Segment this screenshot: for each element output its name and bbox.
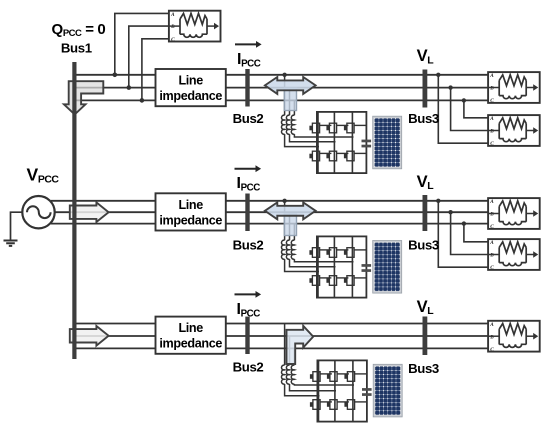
wire inverter phase C lead xyxy=(293,224,295,241)
Bus1 bar xyxy=(72,62,76,359)
wire line A to load2 pin C xyxy=(438,75,488,143)
wire feeder1 phase C Bus1 to load xyxy=(74,99,488,101)
wire line C to load2 pin A xyxy=(464,224,488,242)
load box feeder1 lower xyxy=(488,115,540,147)
junction dot line B xyxy=(448,210,452,214)
junction dot line C xyxy=(462,221,466,225)
svg-text:Bus2: Bus2 xyxy=(233,238,264,253)
svg-text:Bus3: Bus3 xyxy=(408,238,439,253)
ac source V_PCC xyxy=(22,196,54,228)
wire inductor to inverter leg xyxy=(290,259,336,267)
wire inverter phase B lead xyxy=(289,212,291,240)
filter inductor L1 xyxy=(281,240,284,259)
svg-text:Line: Line xyxy=(178,321,203,335)
current label I_PCC feeder3 xyxy=(235,291,262,319)
junction dot line C xyxy=(462,98,466,102)
wire Bus1 to utility box phase B xyxy=(129,26,169,88)
wire inverter phase A lead xyxy=(284,324,286,366)
wire feeder3 phase A Bus1 to load xyxy=(74,323,488,325)
wire Bus1 to utility box phase A xyxy=(115,13,169,74)
wire feeder2 phase C source to load xyxy=(51,223,488,225)
svg-text:Line: Line xyxy=(178,198,203,212)
Bus3 bar feeder2 xyxy=(422,195,427,231)
svg-text:Line: Line xyxy=(178,74,203,88)
wire line A to load2 pin C xyxy=(438,201,488,267)
load box feeder2 lower xyxy=(488,239,540,271)
dc-link capacitor feeder3 xyxy=(362,388,372,391)
Bus3 bar feeder3 xyxy=(422,317,427,356)
elbow arrow feeder3 inverter injection xyxy=(287,326,314,364)
Bus2 bar feeder1 xyxy=(245,69,249,107)
wire inductor to inverter leg xyxy=(285,134,319,147)
junction dot line B xyxy=(448,85,452,89)
bidirectional power arrow at Bus2 xyxy=(265,77,316,94)
filter inductor L2 xyxy=(286,365,289,384)
dc-link capacitor feeder2 xyxy=(362,264,372,267)
wire line C to load2 pin A xyxy=(464,100,488,117)
filter inductor L2 xyxy=(286,115,289,134)
svg-text:Bus3: Bus3 xyxy=(408,111,439,126)
wire inverter phase B lead xyxy=(289,88,291,116)
filter inductor L1 xyxy=(281,365,284,384)
current label I_PCC feeder1 xyxy=(235,41,262,69)
wire inductor to inverter leg xyxy=(285,259,319,271)
junction dot line A xyxy=(436,73,440,77)
bidirectional power arrow at Bus2 xyxy=(265,202,316,219)
wire inverter phase C lead xyxy=(293,348,295,365)
power flow right arrow feeder3 xyxy=(70,326,109,346)
wire inverter phase B lead xyxy=(289,336,291,365)
wire source to ground xyxy=(11,212,23,240)
wire Bus1 to utility box phase C xyxy=(142,39,169,101)
wire inductor to inverter leg xyxy=(294,259,353,262)
filter inductor L3 xyxy=(291,115,294,134)
utility equivalent load box (top) xyxy=(169,11,221,43)
sine symbol xyxy=(27,206,51,218)
svg-text:Bus2: Bus2 xyxy=(233,359,264,374)
wire feeder3 phase B Bus1 to load xyxy=(74,335,488,337)
wire feeder2 phase A source to load xyxy=(51,200,488,202)
dc-link capacitor feeder1 xyxy=(362,140,372,143)
wire inverter phase A lead xyxy=(284,201,286,241)
pv array feeder1 xyxy=(373,116,402,169)
wire inductor to inverter leg xyxy=(290,384,337,391)
svg-text:Bus2: Bus2 xyxy=(233,111,264,126)
junction dot utility B xyxy=(127,85,132,90)
svg-text:impedance: impedance xyxy=(159,89,222,103)
svg-text:impedance: impedance xyxy=(159,213,222,227)
junction dot feeder2 stem xyxy=(282,199,286,203)
load box feeder1 upper xyxy=(488,72,540,104)
power flow elbow arrow into Bus1 (feeder1) xyxy=(64,81,103,114)
wire line B to load2 pin B xyxy=(451,88,488,131)
pv array feeder2 xyxy=(373,241,402,294)
inverter feeder1 xyxy=(309,112,366,173)
wire feeder1 phase B Bus1 to load xyxy=(74,87,488,89)
wire inverter phase C lead xyxy=(293,100,295,115)
Bus3 bar feeder1 xyxy=(422,70,427,108)
ground xyxy=(4,241,18,246)
wire feeder2 phase B source to load xyxy=(55,211,488,213)
Bus2 bar feeder2 xyxy=(245,194,249,232)
line impedance box feeder1 xyxy=(156,69,226,106)
line impedance box feeder3 xyxy=(156,317,226,354)
pv array feeder3 xyxy=(373,364,402,417)
inverter feeder3 xyxy=(310,360,367,421)
junction dot utility C xyxy=(140,98,145,103)
inverter feeder2 xyxy=(309,236,366,297)
filter inductor L3 xyxy=(291,365,294,384)
junction dot feeder1 stem xyxy=(282,73,286,77)
inverter stem (reactive exchange) xyxy=(284,214,296,236)
filter inductor L1 xyxy=(281,115,284,134)
wire inductor to inverter leg xyxy=(285,384,320,396)
svg-text:Bus1: Bus1 xyxy=(61,41,92,56)
Bus2 bar feeder3 xyxy=(245,317,249,354)
wire inductor to inverter leg xyxy=(294,134,353,137)
filter inductor L3 xyxy=(291,240,294,259)
load box feeder3 xyxy=(488,321,540,353)
current label I_PCC feeder2 xyxy=(235,165,262,193)
power flow right arrow feeder2 xyxy=(70,202,109,222)
junction dot line A xyxy=(436,199,440,203)
junction dot utility A xyxy=(113,73,118,78)
line impedance box feeder2 xyxy=(156,193,226,230)
svg-text:Bus3: Bus3 xyxy=(408,361,439,376)
wire inverter phase A lead xyxy=(284,75,286,116)
filter inductor L2 xyxy=(286,240,289,259)
load box feeder2 upper xyxy=(488,198,540,230)
wire feeder3 phase C Bus1 to load xyxy=(74,347,488,349)
wire inductor to inverter leg xyxy=(290,134,336,142)
wire inductor to inverter leg xyxy=(294,384,354,385)
wire line B to load2 pin B xyxy=(451,212,488,254)
svg-text:impedance: impedance xyxy=(159,337,222,351)
inverter stem (reactive exchange) xyxy=(284,88,296,110)
wire feeder1 phase A Bus1 to load xyxy=(74,74,488,76)
